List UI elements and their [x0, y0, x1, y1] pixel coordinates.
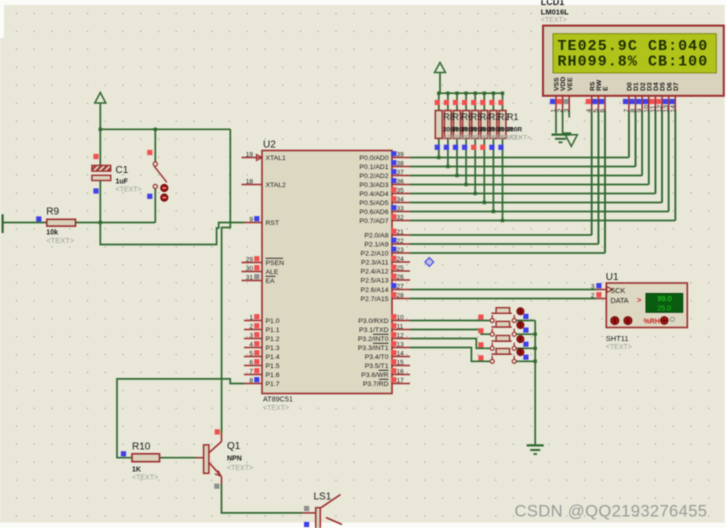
svg-text:P1.7: P1.7	[266, 381, 280, 388]
svg-text:P1.6: P1.6	[266, 372, 280, 379]
svg-text:P2.0/A8: P2.0/A8	[364, 232, 388, 239]
svg-text:P3.1/TXD: P3.1/TXD	[359, 327, 389, 334]
svg-text:P1.4: P1.4	[266, 354, 280, 361]
svg-text:ALE: ALE	[266, 269, 279, 276]
svg-text:LM016L: LM016L	[541, 8, 569, 17]
svg-text:1uF: 1uF	[116, 179, 129, 186]
svg-text:3: 3	[564, 109, 571, 113]
svg-text:LCD1: LCD1	[541, 0, 565, 7]
svg-text:14: 14	[670, 105, 677, 113]
svg-text:P1.1: P1.1	[266, 327, 280, 334]
svg-text:99.0: 99.0	[658, 294, 672, 303]
svg-text:7: 7	[249, 368, 253, 375]
svg-text:9: 9	[249, 216, 253, 223]
svg-text:24: 24	[397, 256, 405, 263]
svg-text:NPN: NPN	[227, 456, 242, 463]
svg-text:22: 22	[397, 238, 405, 245]
svg-text:XTAL2: XTAL2	[266, 182, 286, 189]
svg-text:P3.4/T0: P3.4/T0	[365, 354, 389, 361]
svg-text:E: E	[603, 86, 610, 91]
svg-text:>: >	[637, 295, 642, 304]
svg-text:P2.7/A15: P2.7/A15	[361, 296, 389, 303]
svg-text:1K: 1K	[132, 467, 141, 474]
svg-text:P2.3/A11: P2.3/A11	[361, 259, 389, 266]
svg-text:P0.4/AD4: P0.4/AD4	[359, 191, 388, 198]
svg-text:12: 12	[397, 332, 405, 339]
svg-text:R10: R10	[132, 442, 151, 453]
svg-text:33: 33	[397, 205, 405, 212]
svg-text:28: 28	[397, 292, 405, 299]
svg-text:<TEXT>: <TEXT>	[507, 135, 531, 142]
svg-text:P3.6/WR: P3.6/WR	[361, 372, 388, 379]
svg-text:38: 38	[397, 160, 405, 167]
svg-text:U2: U2	[263, 140, 276, 151]
svg-text:<TEXT>: <TEXT>	[46, 236, 75, 245]
svg-text:27: 27	[397, 283, 405, 290]
svg-text:P1.5: P1.5	[266, 363, 280, 370]
svg-text:P2.4/A12: P2.4/A12	[361, 268, 389, 275]
svg-text:P0.7/AD7: P0.7/AD7	[359, 218, 388, 225]
svg-text:2: 2	[591, 292, 595, 299]
svg-text:P0.3/AD3: P0.3/AD3	[359, 182, 388, 189]
svg-text:P1.0: P1.0	[266, 318, 280, 325]
svg-text:34: 34	[397, 196, 405, 203]
svg-text:P3.5/T1: P3.5/T1	[365, 363, 389, 370]
svg-text:16: 16	[397, 368, 405, 375]
svg-text:30: 30	[246, 265, 254, 272]
svg-text:DATA: DATA	[611, 296, 629, 305]
svg-text:4: 4	[249, 341, 253, 348]
svg-text:P1.3: P1.3	[266, 345, 280, 352]
svg-text:36: 36	[397, 178, 405, 185]
svg-text:RST: RST	[266, 220, 280, 227]
svg-text:10: 10	[397, 314, 405, 321]
svg-text:13: 13	[397, 341, 405, 348]
svg-text:C1: C1	[116, 165, 129, 176]
svg-text:P2.1/A9: P2.1/A9	[364, 241, 388, 248]
svg-text:<TEXT>: <TEXT>	[116, 187, 142, 194]
svg-text:P0.1/AD1: P0.1/AD1	[359, 164, 388, 171]
svg-text:P0.5/AD5: P0.5/AD5	[359, 200, 388, 207]
svg-text:18: 18	[246, 178, 254, 185]
svg-text:35: 35	[397, 187, 405, 194]
svg-text:1: 1	[249, 314, 253, 321]
svg-text:%RH: %RH	[644, 318, 660, 325]
svg-text:8: 8	[249, 377, 253, 384]
svg-text:3: 3	[591, 283, 595, 290]
svg-text:P3.7/RD: P3.7/RD	[363, 381, 389, 388]
svg-text:<TEXT>: <TEXT>	[263, 405, 289, 412]
svg-text:U1: U1	[606, 272, 619, 283]
svg-text:R1: R1	[507, 112, 519, 122]
svg-text:LS1: LS1	[314, 492, 332, 503]
svg-text:P0.6/AD6: P0.6/AD6	[359, 209, 388, 216]
svg-text:37: 37	[397, 169, 405, 176]
svg-text:P3.3/INT1: P3.3/INT1	[358, 345, 389, 352]
svg-text:2: 2	[249, 323, 253, 330]
svg-text:<TEXT>: <TEXT>	[541, 17, 567, 24]
svg-text:3: 3	[249, 332, 253, 339]
svg-text:15: 15	[397, 359, 405, 366]
svg-text:R9: R9	[46, 207, 59, 218]
svg-text:P0.0/AD0: P0.0/AD0	[359, 155, 388, 162]
svg-text:31: 31	[246, 274, 254, 281]
svg-text:Q1: Q1	[227, 441, 241, 452]
svg-text:5: 5	[249, 350, 253, 357]
svg-text:21: 21	[397, 229, 405, 236]
svg-text:SCK: SCK	[611, 286, 626, 295]
svg-text:39: 39	[397, 151, 405, 158]
svg-text:P2.6/A14: P2.6/A14	[361, 287, 389, 294]
svg-text:6: 6	[600, 109, 607, 113]
svg-text:D7: D7	[673, 82, 680, 91]
svg-text:25: 25	[397, 265, 405, 272]
svg-text:<TEXT>: <TEXT>	[606, 344, 632, 351]
svg-text:RH099.8% CB:100: RH099.8% CB:100	[558, 53, 709, 70]
svg-text:P0.2/AD2: P0.2/AD2	[359, 173, 388, 180]
svg-text:EA: EA	[266, 278, 276, 285]
svg-text:23: 23	[397, 247, 405, 254]
svg-text:P3.2/INT0: P3.2/INT0	[358, 336, 389, 343]
svg-text:32: 32	[397, 214, 405, 221]
svg-text:SHT11: SHT11	[606, 334, 629, 343]
svg-text:11: 11	[397, 323, 404, 330]
svg-text:14: 14	[397, 350, 405, 357]
svg-text:<TEXT>: <TEXT>	[227, 465, 253, 472]
svg-text:P3.0/RXD: P3.0/RXD	[358, 318, 388, 325]
svg-text:6: 6	[249, 359, 253, 366]
svg-text:P2.5/A13: P2.5/A13	[361, 277, 389, 284]
svg-text:29: 29	[246, 256, 254, 263]
svg-text:CSDN @QQ2193276455: CSDN @QQ2193276455	[515, 502, 708, 521]
svg-text:300R: 300R	[507, 127, 523, 134]
svg-text:26: 26	[397, 274, 405, 281]
svg-text:PSEN: PSEN	[266, 260, 285, 267]
svg-text:25.0: 25.0	[657, 303, 671, 312]
svg-text:AT89C51: AT89C51	[263, 395, 293, 404]
svg-text:<TEXT>: <TEXT>	[132, 475, 158, 482]
svg-text:P2.2/A10: P2.2/A10	[361, 250, 389, 257]
svg-text:19: 19	[246, 151, 254, 158]
svg-text:VEE: VEE	[567, 77, 574, 91]
svg-text:XTAL1: XTAL1	[266, 155, 286, 162]
svg-text:17: 17	[397, 377, 405, 384]
svg-text:P1.2: P1.2	[266, 336, 280, 343]
